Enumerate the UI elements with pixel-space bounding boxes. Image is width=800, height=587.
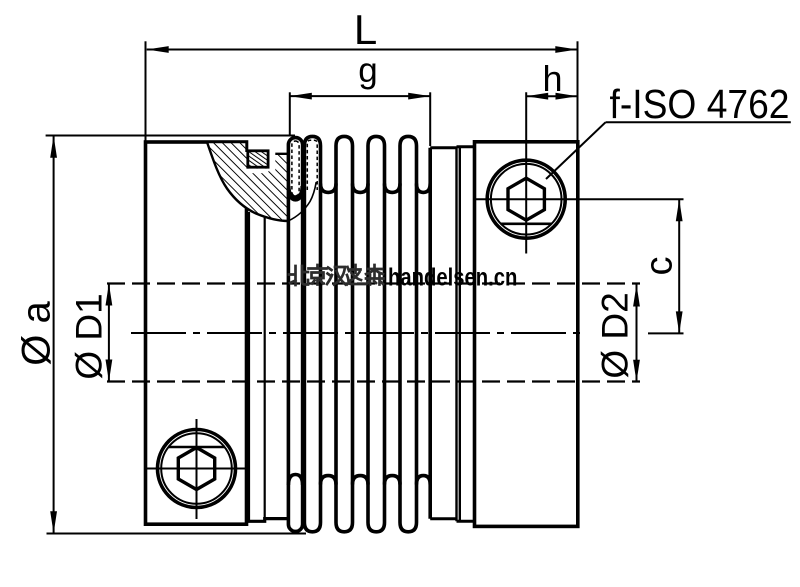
- svg-text:g: g: [358, 51, 377, 90]
- svg-text:f-ISO 4762: f-ISO 4762: [610, 81, 790, 127]
- svg-text:h: h: [542, 58, 562, 99]
- svg-text:handelsen.cn: handelsen.cn: [388, 262, 517, 291]
- svg-text:Ø D2: Ø D2: [595, 292, 636, 378]
- svg-text:Ø D1: Ø D1: [69, 293, 110, 379]
- svg-text:Ø a: Ø a: [15, 301, 59, 366]
- svg-text:L: L: [354, 6, 377, 53]
- svg-text:c: c: [639, 257, 681, 276]
